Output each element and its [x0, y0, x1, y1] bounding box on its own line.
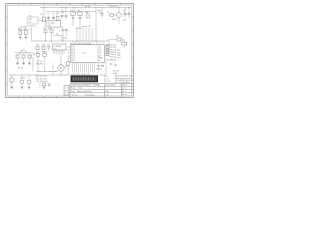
wire drop x119 to Q1: [118, 8, 120, 13]
wire riser x53: [52, 63, 54, 75]
wire drop x66: [65, 8, 67, 14]
wire R3 down: [25, 35, 27, 38]
title block left edge: [69, 84, 71, 98]
wire U2 top pins: [73, 41, 103, 45]
connector K2 small box: [64, 86, 69, 96]
transistor Q2: [36, 53, 40, 71]
labels bottom-center rows: [36, 76, 48, 83]
svg-text:Blatt 1: Blatt 1: [122, 84, 127, 87]
pin name labels far right of U2: [117, 50, 121, 59]
node dots mid rail: [45, 40, 96, 43]
wire U2 left stubs: [67, 47, 71, 56]
svg-text:R19: R19: [116, 36, 119, 38]
wire left riser: [31, 27, 33, 41]
net flag left edge: [34, 53, 39, 56]
svg-text:0.5W: 0.5W: [113, 73, 117, 75]
wire drop x96 long: [95, 8, 97, 41]
title block right divider: [121, 84, 123, 98]
svg-text:P1.0 P1.2 P1.4 P1.6 RST: P1.0 P1.2 P1.4 P1.6 RST: [70, 43, 92, 45]
ground G4: [22, 63, 25, 65]
svg-text:M1: M1: [65, 66, 68, 68]
wire U4 bottom pins: [54, 50, 65, 54]
svg-text:12.04.: 12.04.: [78, 88, 83, 90]
svg-text:Zon: Zon: [71, 85, 74, 87]
wire to R19: [109, 39, 117, 41]
resistor R19: [117, 38, 121, 41]
wire riser x33: [32, 57, 34, 72]
resistor R4: [43, 28, 47, 41]
svg-text:Steuerplatine: Steuerplatine: [85, 94, 95, 97]
ground G3: [16, 63, 19, 65]
svg-text:MC 2.1: MC 2.1: [72, 95, 78, 97]
resistor R5: [49, 28, 53, 41]
wire bus drop x80: [79, 26, 81, 41]
svg-text:S1 S2: S1 S2: [18, 67, 23, 69]
svg-text:Gepr.: Gepr.: [71, 90, 76, 93]
resistor network labels right of U2: [110, 45, 117, 59]
wire drop x102: [101, 8, 103, 14]
wire stub R6: [17, 53, 19, 55]
svg-text:Bl. 1: Bl. 1: [122, 91, 125, 93]
border frame inner: [7, 5, 132, 96]
border frame outer: [6, 4, 134, 98]
ground G6: [10, 87, 13, 89]
svg-text:RST: RST: [71, 60, 74, 62]
wire drop x125: [124, 8, 126, 13]
wire node rail left2: [14, 52, 33, 54]
zone ticks bottom: [18, 96, 69, 98]
capacitor C17: [76, 27, 82, 29]
wire stub R7: [23, 53, 25, 55]
svg-text:C12: C12: [47, 44, 50, 46]
crystal X1: [122, 41, 127, 48]
zone ticks top: [18, 4, 120, 6]
svg-text:BC557: BC557: [112, 19, 118, 21]
inductor L1: [56, 13, 60, 20]
title block mid divider: [104, 84, 106, 98]
wire bus drop x83: [82, 28, 84, 41]
wire U2 right stubs: [105, 47, 109, 56]
wire bus drop x86: [85, 28, 87, 41]
wire VCC top rail: [40, 7, 131, 9]
value labels left mid: [31, 55, 33, 59]
capacitor C3: [61, 12, 65, 19]
wire mid bus rail: [32, 40, 110, 42]
diode D2: [78, 10, 83, 15]
capacitor C21 under D2: [79, 18, 82, 19]
wire bus drop x89: [88, 28, 90, 41]
wire bus drop x77: [76, 27, 78, 41]
diode D3: [42, 44, 46, 49]
capacitor C4: [65, 15, 68, 19]
label speaker block: [113, 70, 120, 74]
connector U3 top-left box: [27, 16, 39, 28]
wire drop x74: [73, 8, 75, 12]
transistor Q1: [107, 12, 121, 24]
wire bus drop x92: [91, 28, 93, 41]
capacitor C7: [123, 11, 127, 18]
capacitor C24: [110, 64, 112, 65]
wire stub R8: [29, 53, 31, 55]
svg-text:Blatt: Blatt: [106, 90, 110, 93]
svg-text:100n: 100n: [123, 19, 127, 21]
connector J1 dark header: [71, 76, 98, 82]
ground G9: [43, 87, 46, 89]
capacitor C2: [52, 13, 55, 18]
transistor Q3: [43, 53, 47, 71]
svg-text:R15 10k: R15 10k: [110, 57, 117, 59]
capacitor C11: [82, 26, 88, 28]
title block header cell dividers: [74, 84, 98, 87]
title block row line 3: [70, 88, 134, 90]
wire L mid: [53, 35, 62, 37]
resistor R18 left of bus: [67, 56, 70, 75]
IC U2 microcontroller: [71, 45, 105, 63]
svg-text:22p 22p: 22p 22p: [96, 68, 102, 70]
capacitor C6: [99, 12, 104, 18]
wire drop x40: [39, 83, 41, 89]
capacitor C9: [61, 27, 65, 41]
wire R2 down: [19, 35, 21, 38]
wire node rail left: [18, 29, 32, 31]
motor M1: [58, 54, 68, 75]
svg-text:R16 R17: R16 R17: [36, 64, 43, 66]
wire right riser: [108, 40, 110, 45]
wire R19 to X1: [121, 39, 124, 41]
svg-text:+12V VCC: +12V VCC: [109, 6, 118, 8]
IC U1 regulator: [46, 21, 61, 28]
svg-text:M: M: [60, 67, 62, 70]
wire Q4 to rail: [21, 75, 23, 80]
capacitor C15: [48, 84, 51, 85]
capacitor C23: [101, 63, 104, 67]
svg-text:T4 T5: T4 T5: [20, 77, 25, 79]
capacitor C13: [47, 47, 50, 51]
zone ticks right: [132, 17, 134, 71]
transistor Q5: [27, 80, 31, 86]
resistor R1: [41, 14, 46, 21]
diode D1: [71, 10, 76, 15]
ground G5: [28, 63, 31, 65]
title block texts: [71, 84, 128, 97]
svg-text:INT1: INT1: [117, 57, 121, 59]
title block row line 4: [70, 92, 134, 94]
svg-text:Rev: Rev: [75, 85, 78, 87]
resistor R3 body: [25, 31, 28, 35]
notes text right-bottom: [104, 76, 110, 83]
svg-text:Datum: Datum: [95, 84, 101, 87]
wire drop x62: [61, 8, 63, 14]
resistor R7: [22, 53, 28, 63]
node dots bottom rail: [36, 74, 67, 77]
svg-text:And: And: [87, 84, 90, 87]
svg-text:C14 100n 63V: C14 100n 63V: [36, 81, 48, 83]
svg-text:1 2 3 4 5 6: 1 2 3 4 5 6: [27, 26, 36, 28]
svg-text:C11: C11: [88, 26, 91, 28]
value labels mid: [36, 44, 50, 53]
ground G7: [21, 87, 24, 89]
diode D4: [10, 75, 13, 87]
wire second rail: [46, 10, 96, 12]
svg-text:T2 T3: T2 T3: [37, 61, 42, 63]
wire drop x44: [43, 82, 45, 85]
wire U1 pins down: [49, 27, 58, 30]
svg-text:von 1: von 1: [122, 88, 126, 90]
wire drop x57: [56, 11, 58, 16]
svg-text:Datum Name: Datum Name: [106, 84, 116, 87]
wire lower rail: [36, 71, 58, 73]
ground G1: [19, 37, 22, 39]
wire riser right x106: [105, 58, 107, 75]
capacitor C8: [128, 14, 131, 18]
zone ticks left: [6, 17, 8, 84]
node dots lower rail: [40, 70, 56, 73]
resistor R9: [36, 44, 40, 49]
capacitor C22: [97, 63, 100, 73]
wire U2 bottom bus to J1: [73, 63, 95, 73]
svg-text:AC 9V: AC 9V: [85, 5, 91, 8]
resistor R24: [85, 11, 89, 18]
resistor R2 body: [19, 31, 22, 35]
resistor R25: [43, 83, 46, 86]
wire D2 down: [79, 15, 81, 26]
capacitor C20 under D1: [72, 18, 75, 19]
wire drop x44: [43, 8, 45, 17]
title block top line: [70, 83, 134, 85]
labels right-mid list: [107, 60, 117, 67]
capacitor C25: [114, 65, 116, 66]
title block row line 2: [70, 85, 134, 87]
capacitor C10: [65, 30, 68, 36]
svg-text:Mikrocontroller-Port: Mikrocontroller-Port: [77, 90, 92, 93]
svg-text:1k: 1k: [31, 57, 33, 59]
resistor R8: [28, 55, 31, 63]
wire bottom long rail: [9, 74, 106, 76]
wire Q5 to rail: [28, 75, 30, 80]
node J top rail dots: [44, 7, 130, 8]
transistor Q4: [20, 80, 24, 86]
svg-text:Bearb.: Bearb.: [71, 87, 77, 90]
capacitor C1: [47, 13, 50, 20]
notes text right-col: [115, 75, 134, 84]
svg-text:TR1: TR1: [28, 22, 31, 24]
wire from K1 right: [38, 20, 44, 22]
ground G8: [28, 87, 31, 89]
wire D1 down: [72, 15, 74, 26]
svg-text:1 Bl.: 1 Bl.: [106, 95, 110, 97]
IC U4 driver: [53, 44, 67, 50]
resistor bodies right of U2: [106, 44, 109, 55]
svg-text:R22 1k: R22 1k: [104, 81, 110, 83]
wire drop x129: [128, 8, 130, 13]
resistor R6: [16, 53, 22, 63]
ground G2: [25, 37, 28, 39]
